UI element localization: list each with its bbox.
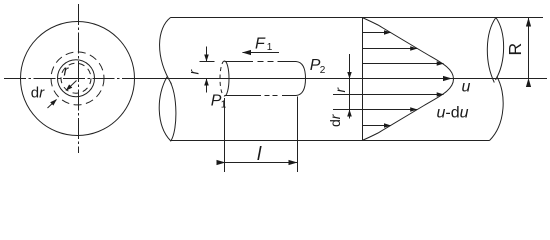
arrow for label r (cross-section) <box>66 81 77 91</box>
svg-text:1: 1 <box>267 42 273 53</box>
extension line at radius r+dr (profile) <box>333 109 363 111</box>
dimension l: left extension line <box>224 98 226 172</box>
dimension l: dimension line with arrows <box>225 162 297 164</box>
pipe cross-section outer circle <box>21 22 135 136</box>
dimension l: right extension line <box>297 97 299 173</box>
dimension r of fluid cylinder: extension tick <box>200 61 215 63</box>
radius R dimension line with arrows <box>528 18 530 79</box>
force arrow F1 <box>243 52 280 54</box>
svg-text:1: 1 <box>221 100 227 111</box>
svg-text:dr: dr <box>327 113 343 127</box>
fluid cylinder left end ellipse (dashed back half) <box>220 61 225 96</box>
svg-text:F: F <box>255 35 266 52</box>
inner dashed circle <box>61 63 91 93</box>
dimension r: upper arrow <box>206 47 208 62</box>
svg-text:r: r <box>332 87 348 93</box>
svg-text:r: r <box>186 69 202 75</box>
pipe centerline (axis) <box>134 78 547 80</box>
velocity arrow at r+dr (u-du) <box>363 109 418 111</box>
fluid cylinder right end cap <box>296 62 306 96</box>
fluid cylinder top edge <box>225 61 297 63</box>
velocity arrow 1 <box>363 32 391 34</box>
svg-text:l: l <box>257 144 262 165</box>
right break line of pipe <box>487 18 503 141</box>
solid circle radius r <box>58 60 95 97</box>
velocity arrow at r (u) <box>363 94 444 96</box>
extension line at radius r (profile) <box>333 94 363 96</box>
fluid cylinder left end ellipse (solid front half) <box>225 61 230 96</box>
velocity arrow 2 <box>363 48 418 50</box>
arrow for label dr (cross-section) <box>48 100 57 109</box>
svg-text:2: 2 <box>320 65 326 76</box>
svg-text:R: R <box>505 43 525 56</box>
svg-text:dr: dr <box>31 85 45 102</box>
svg-text:u: u <box>462 79 471 96</box>
svg-text:u-du: u-du <box>437 105 469 122</box>
profile dr dimension lower arrow <box>349 110 351 118</box>
horizontal centerline of cross-section <box>4 78 134 80</box>
profile r dimension line upper arrow <box>349 54 351 78</box>
vertical centerline of cross-section <box>78 4 80 153</box>
profile r/dr dimension line body <box>349 79 351 119</box>
velocity profile curve (parabola) <box>362 18 454 141</box>
velocity arrow 3 <box>363 63 444 65</box>
pipe top edge <box>171 17 544 19</box>
dashed circle radius r+dr <box>51 52 104 105</box>
fluid cylinder bottom edge <box>225 95 297 97</box>
pipe bottom edge <box>171 140 490 142</box>
svg-text:r: r <box>64 64 70 80</box>
velocity arrow on axis (u max) <box>363 78 452 80</box>
velocity profile baseline <box>362 18 364 141</box>
dimension r: lower arrow <box>206 79 208 93</box>
left break line of pipe <box>159 18 176 142</box>
velocity arrow 7 <box>363 125 391 127</box>
